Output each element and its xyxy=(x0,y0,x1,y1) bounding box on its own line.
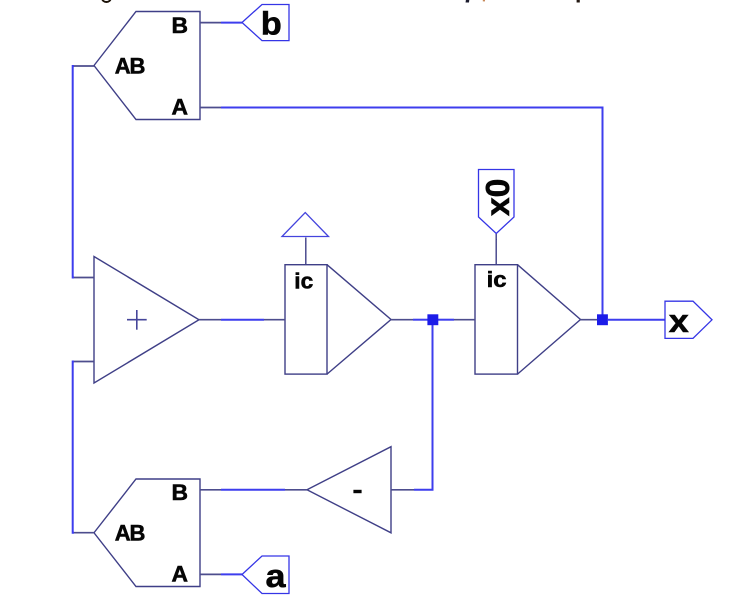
wire: inverter U4 input to AB2 port B xyxy=(221,489,285,491)
svg-text:AB: AB xyxy=(115,54,145,79)
svg-text:B: B xyxy=(172,13,189,38)
wire: tag x0 to integrator U3 ic pin xyxy=(495,234,497,240)
cropped title text fragment (p descender) xyxy=(577,0,580,3)
junction B xyxy=(597,314,608,325)
M1 pin label A xyxy=(172,94,189,119)
M2 pin label A xyxy=(172,561,189,586)
wire: junction B to tag x xyxy=(608,319,665,321)
wire: integrator U2 output to junction A xyxy=(413,319,428,321)
wire: AB1 output to summer upper input (left vertical) xyxy=(73,66,74,278)
svg-text:AB: AB xyxy=(115,521,145,546)
wire: summer output to integrator U2 input xyxy=(221,319,264,321)
port tag a xyxy=(242,556,289,594)
junction A xyxy=(427,314,438,325)
port tag x xyxy=(665,301,712,339)
svg-text:x0: x0 xyxy=(479,179,516,217)
svg-text:x: x xyxy=(669,303,689,339)
svg-text:B: B xyxy=(172,480,189,505)
U4 minus label xyxy=(353,490,361,493)
integrator U2 xyxy=(264,238,413,375)
svg-text:A: A xyxy=(172,94,189,119)
wire: AB1 port A to node x (top long wire, down to junction) xyxy=(221,108,603,319)
port tag x0 (rotated) xyxy=(479,170,517,234)
cropped title text fragment (paren descender) xyxy=(466,0,470,3)
port tag b xyxy=(242,5,289,42)
M1 value label AB xyxy=(115,54,145,79)
cropped title text fragment (faint paren descender) xyxy=(483,0,485,1)
wire: summer lower input to AB2 output (left vertical lower) xyxy=(73,362,74,533)
integrator U3 xyxy=(454,239,598,374)
U2 ic label xyxy=(294,268,313,293)
U3 ic label xyxy=(487,267,507,292)
multiplier M2 (AB) bottom-left xyxy=(74,479,221,587)
svg-text:b: b xyxy=(261,6,282,42)
U1 plus sign xyxy=(127,310,147,330)
summer U1 xyxy=(74,257,221,384)
wire: AB2 port A to tag a xyxy=(221,573,242,575)
svg-text:ic: ic xyxy=(294,268,313,293)
svg-text:A: A xyxy=(172,561,189,586)
open node symbol above U2 ic pin xyxy=(282,213,329,237)
wire: junction A down to inverter U4 output xyxy=(414,321,433,490)
M1 pin label B xyxy=(172,13,189,38)
M2 value label AB xyxy=(115,521,145,546)
svg-text:a: a xyxy=(266,558,286,594)
svg-text:ic: ic xyxy=(487,267,507,292)
M2 pin label B xyxy=(172,480,189,505)
cropped title text fragment (g descender) xyxy=(102,0,111,2)
inverter U4 (gain -1) xyxy=(285,447,414,533)
wire: AB1 port B to tag b xyxy=(221,22,242,24)
multiplier M1 (AB) top-left xyxy=(74,12,221,120)
wire: junction A to integrator U3 input xyxy=(438,319,454,321)
